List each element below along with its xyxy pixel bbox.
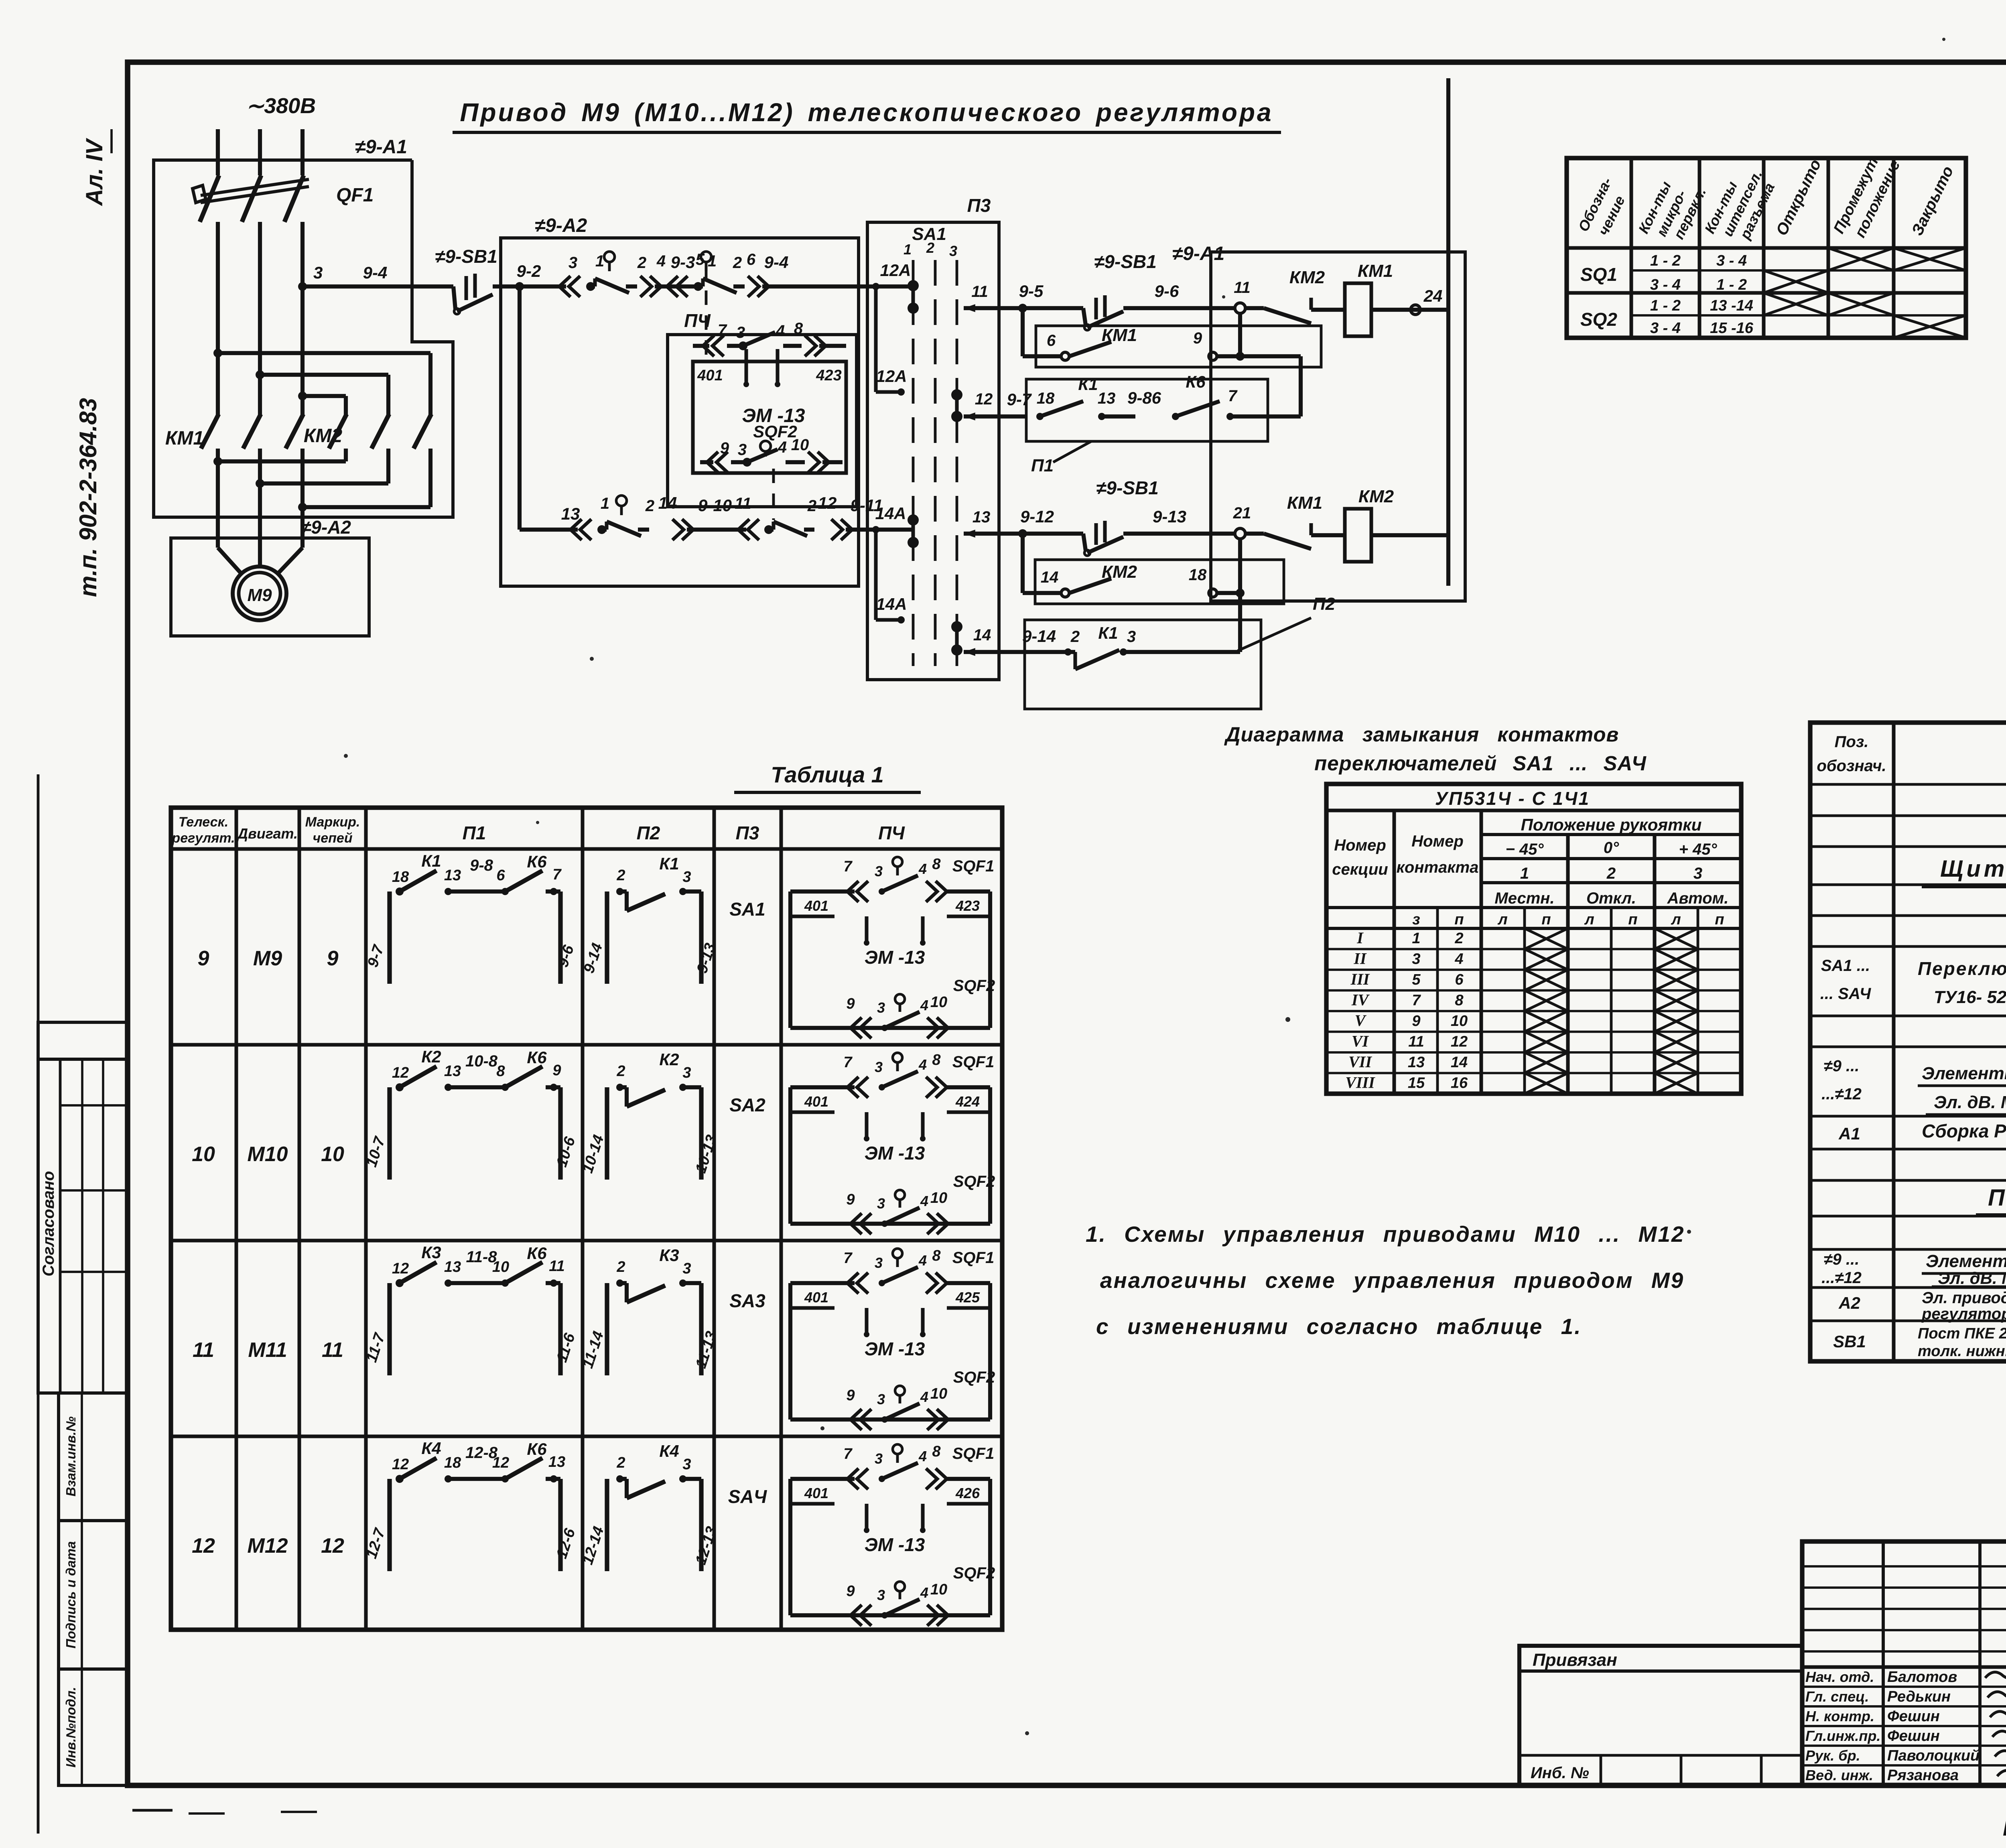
signature squiggle 5 [1995, 1748, 2006, 1757]
contact KM1 NC row D [1245, 532, 1264, 536]
svg-text:Сборка РТ30- БЛ 2: Сборка РТ30- БЛ 2 [1922, 1121, 2006, 1141]
wire control row SQ1 [501, 284, 566, 288]
dashed link SQF2 to SQ2 row [772, 469, 775, 520]
motor feed wires [216, 461, 220, 548]
wire phase 2 top [258, 129, 262, 175]
node 3 tap for control circuit [298, 282, 307, 291]
table1 row 12 P4 terminals [790, 1502, 834, 1505]
wire row E holding KM2 [1021, 534, 1025, 593]
contact pair P3 line1 mid [908, 514, 919, 526]
svg-text:... SАЧ: ... SАЧ [1820, 985, 1871, 1003]
subheader contact letters [1326, 927, 1741, 930]
table UP5314-C141 [1326, 784, 1741, 1094]
svg-text:...≠12: ...≠12 [1821, 1269, 1862, 1287]
signature squiggle 2 [1988, 1689, 2006, 1698]
svg-text:Гл.инж.пр.: Гл.инж.пр. [1805, 1728, 1880, 1744]
table1 row 11 fragment P4 EM-13 box [790, 1281, 855, 1285]
svg-text:По месту: По месту [1988, 1185, 2006, 1211]
contact K1 row F [1068, 650, 1075, 654]
svg-text:А1: А1 [1838, 1124, 1860, 1143]
signature squiggle 3 [1990, 1708, 2006, 1718]
jumper phase2 to KM2 pole2 [256, 370, 264, 379]
svg-text:ТУ16- 52Ч.07Ч- 75: ТУ16- 52Ч.07Ч- 75 [1934, 987, 2006, 1007]
scan speck dots [590, 657, 594, 661]
table1 row 12 fragment P1 contacts К4 К6 [387, 1479, 392, 1571]
limit switch SQ2 [616, 496, 627, 506]
svg-text:Рук. бр.: Рук. бр. [1805, 1747, 1860, 1764]
table1 row 10 P4 terminals [790, 1110, 834, 1114]
svg-text:Паволоцкий: Паволоцкий [1887, 1747, 1980, 1764]
dashed link SQF1 [705, 266, 708, 359]
box P1 [1026, 379, 1268, 441]
svg-text:регулятора ∼380В.: регулятора ∼380В. [1921, 1305, 2006, 1323]
svg-text:Фешин: Фешин [1887, 1708, 1940, 1725]
wire KM1 pole1 to KM2 pole1 tie [216, 449, 220, 461]
aux blade SQF link in SQ2 row [769, 528, 774, 532]
wire phase 3 to KM group [300, 222, 305, 415]
table1 row 9 fragment P4 EM-13 box [790, 889, 855, 894]
wire phase 1 to KM group [216, 222, 220, 415]
contact pair P3 line1 top [908, 280, 919, 291]
table1 row 9 fragment P1 contacts К1 К6 [387, 892, 392, 984]
stub 14A lower [874, 530, 877, 620]
svg-text:≠9 ...: ≠9 ... [1824, 1251, 1860, 1268]
svg-text:Эл. дВ. М9... М12: Эл. дВ. М9... М12 [1934, 1093, 2006, 1112]
contact KM2 NC row A [1245, 306, 1264, 310]
table1 row 10 fragment P1 contacts К2 К6 [387, 1087, 392, 1180]
wire row C rise to KM1 aux row [1299, 356, 1303, 416]
title block main outline [1802, 1541, 2006, 1785]
cross marks Promezhut [1828, 248, 1894, 270]
box P2 [1025, 620, 1261, 709]
wire row F from P3 [999, 650, 1067, 654]
coil box EM-13 [693, 361, 846, 473]
contactor KM2 contacts [329, 414, 347, 449]
wire phase 3 top [300, 129, 305, 175]
wire row C from P3 [999, 414, 1027, 418]
limit switch SQF1 [701, 252, 711, 262]
box #9-A2 motor enclosure [171, 538, 369, 636]
svg-text:Балотов: Балотов [1887, 1669, 1957, 1686]
svg-text:Поз.: Поз. [1835, 733, 1869, 751]
svg-text:Фешин: Фешин [1887, 1728, 1940, 1744]
svg-text:Пост ПКЕ 212-3 толк верхн: Пост ПКЕ 212-3 толк верхн 13. 1р [1918, 1325, 2006, 1342]
box P4 inner enclosure [668, 335, 857, 507]
stub 12A lower [874, 286, 877, 392]
wire KM1 pole2 to KM2 pole2 tie [258, 449, 262, 483]
breaker QF1 [200, 175, 219, 222]
cross marks Zakryto [1894, 248, 1966, 270]
wire node 11 down to KM1 aux [1238, 313, 1242, 356]
table SQ1 SQ2 contact diagram [1567, 158, 1966, 338]
svg-text:А2: А2 [1838, 1294, 1860, 1312]
stray marks bottom left [132, 1809, 173, 1812]
contactor KM1 contacts [201, 414, 219, 449]
table1 row 10 fragment P4 EM-13 box [790, 1085, 855, 1089]
svg-text:толк. нижн. 13 1р ТУ 16- 526: толк. нижн. 13 1р ТУ 16- 526.216-71 [1918, 1343, 2006, 1360]
table1 row 11 fragment P1 contacts К3 К6 [387, 1283, 392, 1375]
table1 row 11 P4 terminals [790, 1306, 834, 1310]
connector chevrons in row SQ1 [569, 276, 580, 297]
left stamp Inv No podl block [59, 1669, 128, 1785]
box #9-A1 control enclosure [1211, 252, 1465, 601]
jumper phase3 to KM2 pole1 [298, 392, 307, 400]
wire rise to node 21 [1238, 539, 1242, 652]
svg-text:Переключатель УП53ЧЧ- С1Ч193: Переключатель УП53ЧЧ- С1Ч193 [1918, 958, 2006, 979]
privyazan box [1519, 1646, 1802, 1785]
svg-text:Привязан: Привязан [1533, 1650, 1617, 1670]
switch column lines in P3 [912, 260, 915, 666]
table1 row 9 P4 terminals [790, 914, 834, 918]
svg-text:Н. контр.: Н. контр. [1805, 1708, 1874, 1724]
wire phase 1 top [216, 129, 220, 175]
svg-text:...≠12: ...≠12 [1821, 1085, 1862, 1103]
title block small grid left [1802, 1565, 2006, 1568]
wire row D from P3 [999, 532, 1083, 536]
parts table [1810, 723, 2006, 1361]
signature squiggle 1 [1985, 1669, 2006, 1678]
cross marks Otkryto [1764, 270, 1828, 293]
svg-text:SА1 ...: SА1 ... [1821, 957, 1870, 975]
svg-text:Эл. дВ. М9... М12: Эл. дВ. М9... М12 [1938, 1269, 2006, 1288]
table1 row 10 fragment P2 contact К2 [605, 1087, 609, 1180]
table1 row 12 fragment P2 contact К4 [605, 1479, 609, 1571]
table1 row 11 fragment P2 contact К3 [605, 1283, 609, 1375]
contact pair P3 line3 upper [951, 389, 962, 400]
wire row B holding KM1 [1021, 308, 1025, 356]
table1 row 12 fragment P4 EM-13 box [790, 1477, 855, 1481]
wire control feed 9-4 [303, 284, 453, 288]
svg-text:Элементы управления: Элементы управления [1922, 1064, 2006, 1083]
supply bus 24 [1446, 78, 1450, 586]
left stamp Podpis i data block [59, 1521, 128, 1669]
left paper edge line [37, 774, 40, 1834]
header Polozhenie rukoyatki [1481, 833, 1741, 836]
svg-text:Нач. отд.: Нач. отд. [1805, 1669, 1874, 1685]
svg-text:Редькин: Редькин [1887, 1688, 1951, 1705]
table 1 grid [171, 808, 1002, 1630]
contact pair P3 line3 lower [951, 621, 962, 632]
svg-text:Копировал: дЛs-: Копировал: дЛs- [2003, 1815, 2006, 1841]
signature squiggle 4 [1992, 1728, 2006, 1737]
left stamp Soglasovano block [38, 1059, 128, 1393]
svg-text:Вед. инж.: Вед. инж. [1805, 1767, 1873, 1783]
table1 row 9 fragment P2 contact К1 [605, 892, 609, 984]
box P1a around KM1 aux [1036, 326, 1321, 367]
limit switch SQ1 [604, 252, 615, 262]
box P2a around KM2 aux [1035, 560, 1284, 604]
stub wires into EM-13 [744, 349, 748, 385]
box #9-A1 enclosure [154, 160, 453, 517]
svg-text:SВ1: SВ1 [1833, 1332, 1866, 1351]
svg-text:обознач.: обознач. [1817, 757, 1886, 775]
contact K6 row C [1172, 413, 1179, 420]
left stamp top box [38, 1022, 128, 1059]
svg-text:Рязанова: Рязанова [1887, 1767, 1959, 1784]
svg-text:Щит диспетчера: Щит диспетчера [1940, 856, 2006, 882]
wire drop to SQ2 row [518, 286, 522, 530]
contact K1 row C [1036, 413, 1044, 420]
jumper phase1 to KM2 pole3 [213, 349, 222, 357]
svg-text:Эл. привод телескопического: Эл. привод телескопического [1922, 1289, 2006, 1307]
wire row A from P3 [999, 306, 1083, 310]
box #9-A2 control enclosure [501, 238, 859, 586]
svg-text:Инб. №: Инб. № [1531, 1764, 1589, 1782]
connector panel P3 [867, 222, 999, 680]
svg-text:≠9 ...: ≠9 ... [1824, 1057, 1860, 1075]
signature rows grid [1802, 1686, 2006, 1688]
svg-text:Элементы управления: Элементы управления [1926, 1251, 2006, 1271]
wire phase 2 to KM group [258, 222, 262, 415]
signature squiggle 6 [1997, 1767, 2006, 1777]
wire KM1 pole3 to KM2 pole3 tie [300, 449, 305, 507]
svg-text:Гл. спец.: Гл. спец. [1805, 1688, 1869, 1705]
wire control row SQ2 [520, 528, 578, 532]
motor M9 [233, 567, 286, 620]
left stamp Vzam inv block [59, 1393, 128, 1521]
